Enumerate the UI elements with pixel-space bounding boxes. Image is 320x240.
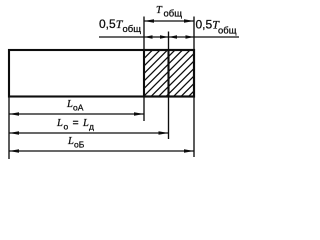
extension line x=9 below [8,98,10,160]
divider line mid hatch [167,50,169,97]
dimension line T_obsh y=21 [144,20,194,22]
svg-text:L: L [56,118,63,129]
svg-text:общ: общ [218,26,237,37]
svg-text:0,5T: 0,5T [196,18,221,32]
arrow tip 168.5 pointing right [160,35,169,39]
dimension line 0,5T y=37 [99,36,239,38]
arrow tip 144 pointing right [134,112,144,115]
arrow tip 9 pointing left [9,149,19,152]
svg-text:оА: оА [73,103,84,113]
extension line x=168.5 above [168,32,170,50]
extension line x=168.5 below [168,98,170,140]
svg-text:L: L [66,99,73,110]
extension line x=194 above [193,17,195,50]
svg-text:общ: общ [123,24,142,35]
svg-text:о: о [64,122,69,132]
svg-text:д: д [89,122,94,132]
extension line x=144 below [143,98,145,122]
svg-text:L: L [82,118,89,129]
svg-text:L: L [67,136,74,147]
arrow tip 168.5 pointing left [169,35,178,39]
arrow tip 168.5 pointing right [159,131,169,134]
arrow right tip 194 [184,19,194,22]
main bar rectangle [9,50,194,97]
dimension line L_o=L_d y=133 [9,132,169,134]
arrow tip 9 pointing left [9,131,19,134]
svg-text:оБ: оБ [74,140,85,150]
arrow tip 194 pointing right [186,35,195,39]
svg-text:0,5T: 0,5T [99,17,124,31]
dimension line L_oB y=151 [9,150,194,152]
arrow tip 144 pointing left [144,35,153,39]
svg-text:=: = [73,117,79,129]
extension line x=144 above [143,17,145,50]
arrow tip 194 pointing right [184,149,194,152]
arrow tip 9 pointing left [9,112,19,115]
extension line x=194 below [193,98,195,158]
arrow left tip 144 [144,19,154,22]
hatched section of bar [144,50,194,97]
svg-text:общ: общ [164,8,183,19]
dimension line L_oA y=114 [9,113,144,115]
